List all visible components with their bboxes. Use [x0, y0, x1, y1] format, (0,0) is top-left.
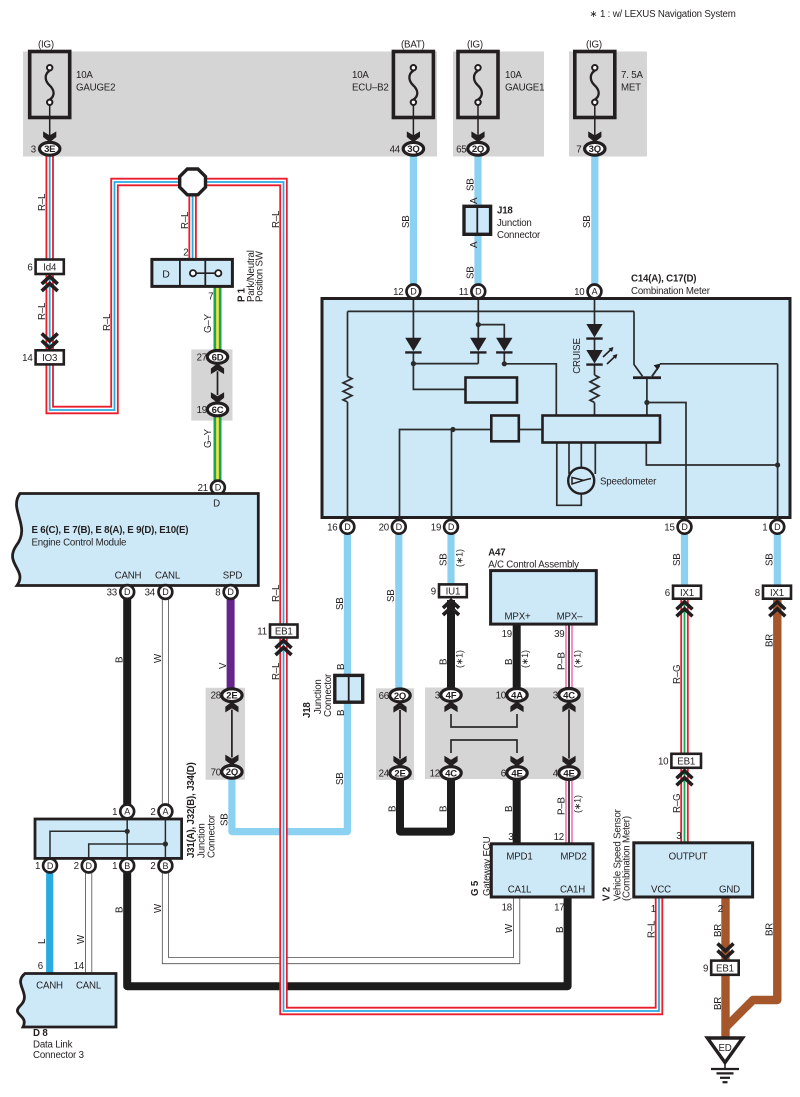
label B (4E-6 drop)	[504, 806, 515, 812]
junction link 4C-4E (right)	[562, 701, 575, 766]
svg-text:1: 1	[651, 904, 656, 915]
connector oval 2E pin 28	[211, 689, 243, 702]
svg-text:D: D	[448, 522, 455, 532]
label W (CANL riser)	[153, 653, 164, 663]
label W (J31 2B drop)	[153, 903, 164, 913]
wire B junction 2E (24) to junction 4C (12)	[400, 777, 451, 832]
wire SB fuse GAUGE1 to meter pin 11 via J18	[474, 150, 481, 287]
connector IX1 pin 6	[665, 586, 701, 599]
svg-text:J18: J18	[302, 702, 313, 718]
svg-text:3: 3	[553, 690, 558, 701]
svg-text:4C: 4C	[563, 690, 575, 701]
svg-text:SB: SB	[438, 553, 449, 566]
wire P-B A47 MPX- to junction 4C (3)	[565, 622, 573, 695]
svg-text:7. 5A: 7. 5A	[621, 70, 643, 81]
fuse block band left	[23, 52, 437, 157]
svg-text:G–Y: G–Y	[203, 428, 214, 448]
svg-text:(IG): (IG)	[586, 40, 602, 51]
svg-text:A: A	[469, 241, 480, 248]
A47 A/C Control Assembly	[488, 548, 596, 625]
svg-text:R–G: R–G	[672, 794, 683, 813]
junction dots inside meter	[411, 322, 780, 468]
label R-L (Id4 to IO3)	[37, 302, 48, 320]
svg-text:SB: SB	[219, 813, 230, 826]
svg-text:SB: SB	[465, 266, 476, 279]
label SB (pin15 riser)	[672, 553, 683, 566]
gateway pin 18 label	[502, 903, 512, 914]
svg-text:A/C Control Assembly: A/C Control Assembly	[488, 560, 579, 571]
J31 pin 2D circle	[74, 859, 96, 873]
svg-text:3Q: 3Q	[407, 144, 419, 155]
svg-text:(∗1): (∗1)	[572, 650, 582, 668]
svg-text:Position SW: Position SW	[255, 250, 266, 302]
V2 pin 2 label	[718, 904, 723, 915]
wire SB junction 2Q (70) to meter pin 16 via J18	[232, 530, 348, 832]
svg-text:4C: 4C	[445, 768, 457, 779]
meter pin 20	[379, 520, 406, 534]
chevrons above EB1 (9)	[718, 944, 734, 959]
svg-text:19: 19	[502, 629, 512, 640]
wire SB meter pin 1 to IX1 (8)	[774, 530, 781, 587]
svg-text:BR: BR	[765, 634, 776, 647]
octagon junction node	[180, 169, 206, 195]
wire R-L EB1 (11) to V2 VCC	[284, 637, 660, 1011]
label R-L (fuse to Id4)	[37, 193, 48, 211]
svg-text:Connector: Connector	[323, 673, 334, 717]
label B (J31 1B drop)	[115, 907, 126, 913]
label SB (fuse ECU-B2 riser)	[401, 215, 412, 228]
C14/C17 Combination Meter box	[322, 299, 790, 518]
fuse 10A ECU-B2	[352, 40, 433, 143]
svg-text:Connector: Connector	[207, 814, 218, 858]
wire R-G EB1 (10) to V2 OUTPUT pin 3	[680, 767, 688, 845]
junction block 4F/4A/4C/4E gray box	[425, 688, 584, 780]
A47 pin 39 label	[554, 629, 564, 640]
label R-G (EB1 to V2)	[672, 794, 683, 813]
wire B J31 pin 1B to gateway CA1H	[127, 866, 567, 986]
svg-text:G–Y: G–Y	[203, 313, 214, 333]
label R-L (left riser)	[102, 313, 113, 331]
svg-text:W: W	[76, 934, 87, 944]
fuse 10A GAUGE1	[458, 40, 544, 143]
svg-text:39: 39	[554, 629, 564, 640]
svg-text:3: 3	[508, 832, 513, 843]
connector oval 3Q pin 44	[390, 142, 424, 155]
svg-text:L: L	[37, 938, 48, 944]
svg-text:R–L: R–L	[37, 193, 48, 211]
connector oval 4C pin 3 (top)	[553, 689, 579, 702]
svg-text:7: 7	[208, 292, 213, 303]
svg-text:IU1: IU1	[446, 586, 461, 597]
meter diode 2	[470, 338, 486, 353]
label R-L (below EB1)	[271, 662, 282, 680]
svg-text:MPX+: MPX+	[505, 612, 531, 623]
svg-text:27: 27	[197, 352, 207, 363]
wire SB fuse ECU-B2 to meter pin 12	[410, 150, 417, 287]
ECM pin 33 circle	[107, 585, 135, 599]
svg-text:W: W	[153, 903, 164, 913]
label R-L (right riser to EB1)	[271, 210, 282, 228]
junction link 4F-4A	[444, 701, 523, 727]
V2 pin 1 label	[651, 904, 656, 915]
svg-text:10: 10	[496, 690, 507, 701]
svg-text:BR: BR	[713, 924, 724, 937]
svg-text:2E: 2E	[394, 768, 405, 779]
svg-text:CANL: CANL	[155, 571, 181, 582]
svg-text:EB1: EB1	[716, 963, 734, 974]
ground symbol	[711, 1063, 739, 1083]
meter diode 1	[405, 338, 421, 353]
svg-text:19: 19	[197, 405, 207, 416]
connector oval 6C pin 19	[197, 403, 228, 416]
svg-text:11: 11	[459, 287, 469, 298]
meter pin 16	[327, 520, 354, 534]
svg-text:3Q: 3Q	[589, 144, 601, 155]
svg-text:4E: 4E	[511, 768, 522, 779]
svg-text:B: B	[115, 657, 126, 663]
connector IU1 pin 9	[431, 584, 467, 597]
svg-text:6: 6	[38, 961, 43, 972]
label G-Y (P1 to 6D)	[203, 313, 214, 333]
svg-text:4F: 4F	[446, 690, 457, 701]
label CRUISE	[572, 338, 583, 374]
svg-text:MPD1: MPD1	[506, 852, 532, 863]
svg-text:∗ 1 : w/ LEXUS Navigation Syst: ∗ 1 : w/ LEXUS Navigation System	[590, 9, 736, 20]
svg-text:P–B: P–B	[556, 797, 567, 815]
junction link 2Q-2E (center)	[393, 702, 406, 767]
svg-text:20: 20	[379, 522, 390, 533]
svg-text:4: 4	[553, 769, 559, 780]
label B (2E drop)	[387, 806, 398, 812]
svg-text:B: B	[124, 861, 130, 871]
connector EB1 pin 10	[658, 754, 701, 768]
svg-text:IX1: IX1	[680, 588, 694, 599]
svg-text:CRUISE: CRUISE	[572, 338, 583, 374]
svg-text:J31(A), J32(B), J34(D): J31(A), J32(B), J34(D)	[186, 762, 197, 858]
svg-text:10A: 10A	[352, 70, 369, 81]
label V (SPD riser)	[218, 662, 229, 669]
svg-text:Engine Control Module: Engine Control Module	[32, 538, 127, 549]
svg-text:33: 33	[107, 588, 117, 599]
label B above/below J18 (left)	[336, 664, 347, 716]
svg-text:GAUGE1: GAUGE1	[505, 83, 544, 94]
svg-text:65: 65	[456, 144, 466, 155]
label BR (right drop)	[765, 923, 776, 936]
connector oval 3E pin 3	[31, 142, 60, 155]
svg-text:B: B	[336, 710, 347, 716]
connector EB1 pin 9	[703, 961, 739, 975]
svg-text:VCC: VCC	[651, 885, 671, 896]
svg-text:8: 8	[215, 588, 220, 599]
fuse block band right	[569, 52, 647, 157]
meter internal box 1	[466, 378, 518, 403]
E6-E10 Engine Control Module box	[13, 494, 259, 586]
label P-B and (*1) (4E-4 drop)	[556, 795, 582, 815]
label SB (fuse MET riser)	[582, 215, 593, 228]
svg-text:IO3: IO3	[42, 353, 57, 364]
svg-text:10A: 10A	[505, 70, 522, 81]
svg-text:3: 3	[31, 144, 36, 155]
ECM pin 8 circle	[215, 585, 237, 599]
wire L J31 pin 1D to DLC3 CANH	[46, 866, 53, 975]
svg-text:4E: 4E	[563, 768, 574, 779]
connector IO3 pin 14	[22, 350, 64, 364]
junction block 2E/2Q gray box (left)	[206, 688, 245, 780]
meter internal box 3	[543, 416, 661, 443]
gateway MPD2 pin 12 label	[554, 832, 564, 843]
svg-text:19: 19	[431, 522, 441, 533]
svg-text:OUTPUT: OUTPUT	[669, 852, 708, 863]
wire SB meter pin 15 to IX1 (6)	[681, 530, 688, 587]
svg-text:14: 14	[22, 353, 33, 364]
J31 pin 1B circle	[112, 859, 134, 873]
meter name label	[631, 274, 711, 298]
J18 junction connector (top)	[464, 206, 491, 234]
svg-text:(IG): (IG)	[467, 40, 483, 51]
chevrons below IU1	[443, 601, 459, 616]
svg-text:D 8: D 8	[33, 1028, 48, 1039]
meter transistor base bar	[633, 363, 661, 379]
svg-text:SB: SB	[765, 553, 776, 566]
connector oval 3Q pin 7	[576, 142, 605, 155]
svg-text:EB1: EB1	[677, 756, 695, 767]
svg-text:(∗1): (∗1)	[454, 549, 464, 567]
V2 name label	[601, 808, 632, 901]
svg-text:D: D	[396, 522, 403, 532]
label R-L (VCC riser)	[646, 920, 657, 938]
label B (4C riser)	[438, 806, 449, 812]
svg-text:A: A	[162, 807, 168, 817]
svg-text:D: D	[47, 861, 54, 871]
svg-text:17: 17	[554, 903, 564, 914]
svg-text:9: 9	[431, 586, 436, 597]
svg-text:R–G: R–G	[672, 665, 683, 684]
label SB / A above and below J18 (top)	[465, 178, 480, 279]
svg-text:2: 2	[150, 807, 155, 818]
label L (J31 to DLC3)	[37, 938, 48, 944]
junction link 6D-6C	[211, 363, 224, 403]
svg-text:BR: BR	[765, 923, 776, 936]
svg-text:D: D	[475, 287, 482, 297]
label B (CANH riser)	[115, 657, 126, 663]
svg-text:12: 12	[554, 832, 564, 843]
label SB (pin20 riser)	[386, 589, 397, 602]
svg-text:CANH: CANH	[115, 571, 142, 582]
svg-text:66: 66	[379, 691, 389, 702]
svg-text:SB: SB	[386, 589, 397, 602]
svg-text:Combination Meter: Combination Meter	[631, 286, 711, 297]
wire B junction 4E (6) to gateway MPD1	[513, 777, 521, 846]
svg-text:2: 2	[150, 861, 155, 872]
wire W J31 pin 2B to gateway CA1L	[165, 866, 516, 961]
label W (J31 2D to DLC3)	[76, 934, 87, 944]
chevrons above IO3	[42, 334, 58, 349]
svg-text:B: B	[387, 806, 398, 812]
svg-text:10: 10	[574, 287, 585, 298]
svg-text:SB: SB	[401, 215, 412, 228]
svg-text:Connector 3: Connector 3	[33, 1050, 84, 1061]
svg-text:W: W	[504, 923, 515, 933]
cruise indicator diode	[586, 324, 602, 339]
svg-text:14: 14	[74, 961, 85, 972]
wire P-B junction 4E (4) to gateway MPD2	[565, 777, 573, 846]
svg-text:B: B	[115, 907, 126, 913]
svg-text:G 5: G 5	[470, 880, 481, 896]
label P-B and (*1) (MPX- riser)	[556, 650, 582, 670]
label R-G (IX1 to EB1)	[672, 665, 683, 684]
svg-text:3: 3	[435, 690, 440, 701]
svg-text:EB1: EB1	[275, 627, 293, 638]
svg-text:28: 28	[211, 691, 221, 702]
label R-L (octagon to P1)	[180, 211, 191, 229]
wire B IU1 to junction 4F (3)	[447, 600, 455, 695]
wire R-L fuse GAUGE2 to Id4	[46, 150, 54, 261]
svg-text:D: D	[162, 268, 170, 280]
svg-text:D: D	[774, 522, 781, 532]
svg-text:9: 9	[703, 963, 708, 974]
label G-Y (6C to ECM 21)	[203, 428, 214, 448]
connector oval 4F pin 3	[435, 689, 461, 702]
wire SB meter pin 20 to junction 2Q (66)	[395, 530, 402, 695]
svg-text:E 6(C), E 7(B), E 8(A), E 9(D): E 6(C), E 7(B), E 8(A), E 9(D), E10(E)	[32, 525, 189, 536]
label BR (IX1 to ground)	[765, 634, 776, 647]
P1 name label	[236, 250, 265, 302]
svg-text:1: 1	[762, 522, 767, 533]
svg-text:MET: MET	[621, 83, 641, 94]
J18 (top) labels	[497, 206, 541, 242]
svg-text:(∗1): (∗1)	[572, 795, 582, 813]
svg-text:BR: BR	[713, 997, 724, 1010]
chevrons below EB1 (11)	[276, 641, 292, 656]
meter diode 3	[496, 338, 512, 353]
meter internal wiring	[343, 300, 777, 519]
svg-text:CA1H: CA1H	[560, 885, 585, 896]
svg-text:D: D	[344, 522, 351, 532]
svg-text:R–L: R–L	[180, 211, 191, 229]
J31 pin 2A circle	[150, 805, 172, 819]
svg-text:W: W	[153, 653, 164, 663]
J31/J32/J34 junction connector box	[35, 819, 182, 858]
svg-text:6: 6	[501, 769, 506, 780]
wire W J31 pin 2D to DLC3 CANL	[85, 866, 92, 975]
svg-text:70: 70	[211, 767, 222, 778]
connector EB1 pin 11	[257, 625, 297, 638]
wire R-G IX1 (6) to EB1 (10)	[680, 600, 688, 755]
svg-text:D: D	[410, 287, 417, 297]
svg-text:CANL: CANL	[76, 981, 102, 992]
wire SB meter pin 19 to IU1	[447, 530, 454, 586]
svg-text:A: A	[124, 807, 130, 817]
wire G-Y P1 pin 7 to junction 6D	[214, 285, 222, 357]
J18 (left) labels	[302, 673, 334, 718]
svg-text:6D: 6D	[212, 352, 224, 363]
V2 OUTPUT pin 3 label	[676, 831, 681, 842]
svg-text:SB: SB	[335, 597, 346, 610]
wire G-Y junction 6C to ECM pin 21	[214, 409, 222, 483]
label B and (*1) (MPX+ riser)	[504, 650, 530, 668]
cruise indicator LED	[586, 347, 617, 365]
P1 Park/Neutral Position SW	[152, 259, 233, 286]
svg-text:(∗1): (∗1)	[454, 650, 464, 668]
connector oval 2Q pin 65	[456, 142, 488, 155]
fuse 10A GAUGE2	[30, 40, 116, 143]
svg-text:GND: GND	[719, 885, 740, 896]
meter pin 12	[393, 285, 420, 299]
svg-text:B: B	[336, 664, 347, 670]
wire V ECM SPD to junction 2E (28)	[227, 595, 235, 695]
svg-text:MPD2: MPD2	[560, 852, 586, 863]
svg-text:10A: 10A	[76, 70, 93, 81]
wire B A47 MPX+ to junction 4A (10)	[513, 622, 521, 695]
chevrons below Id4	[42, 277, 58, 292]
svg-text:C14(A), C17(D): C14(A), C17(D)	[631, 274, 696, 285]
svg-text:V: V	[218, 662, 229, 669]
gateway MPD1 pin 3 label	[508, 832, 513, 843]
J31 pin 2B circle	[150, 859, 172, 873]
svg-text:8: 8	[755, 588, 760, 599]
label SB (left J18 riser lower)	[335, 772, 346, 785]
svg-text:34: 34	[145, 588, 156, 599]
junction block 2Q/2E gray box (center)	[376, 688, 414, 780]
chevrons below IX1 (8)	[769, 602, 785, 617]
svg-text:B: B	[504, 659, 515, 665]
svg-text:SB: SB	[465, 178, 476, 191]
J18 junction connector (left)	[335, 675, 363, 702]
J31 pin 1D circle	[35, 859, 57, 873]
G5 Gateway ECU box	[491, 844, 593, 897]
wire R-L Id4 to IO3	[46, 272, 54, 352]
ECM pin 34 circle	[145, 585, 173, 599]
svg-text:D: D	[681, 522, 688, 532]
ED ground triangle	[707, 1038, 742, 1063]
svg-text:B: B	[555, 927, 566, 933]
svg-text:12: 12	[393, 287, 403, 298]
wire R-L IO3 to octagon junction	[50, 182, 182, 410]
label W (CA1L drop)	[504, 923, 515, 933]
svg-text:6: 6	[27, 262, 32, 273]
svg-text:7: 7	[576, 144, 581, 155]
svg-text:2Q: 2Q	[226, 767, 238, 778]
label SB (pin16 riser)	[335, 597, 346, 610]
svg-text:V 2: V 2	[601, 887, 612, 901]
svg-text:D: D	[227, 587, 234, 597]
svg-text:1: 1	[112, 807, 117, 818]
svg-text:2: 2	[718, 904, 723, 915]
svg-text:A47: A47	[488, 548, 505, 559]
svg-text:6: 6	[665, 588, 670, 599]
svg-text:16: 16	[327, 522, 337, 533]
svg-text:D: D	[213, 499, 220, 510]
svg-text:(BAT): (BAT)	[401, 40, 425, 51]
connector oval 4E pin 4	[553, 767, 579, 780]
svg-text:D: D	[124, 587, 131, 597]
wire W ECM CANL to J31 pin 2A	[162, 595, 169, 812]
connector Id4 pin 6	[27, 260, 63, 275]
label Speedometer	[600, 477, 657, 488]
svg-text:3: 3	[676, 831, 681, 842]
svg-text:D: D	[215, 483, 222, 493]
wire BR IX1 (8) to ground junction	[725, 600, 778, 1029]
svg-text:11: 11	[257, 627, 267, 638]
svg-text:IX1: IX1	[770, 588, 784, 599]
svg-text:R–L: R–L	[271, 662, 282, 680]
junction block 6D/6C gray box	[191, 349, 232, 420]
svg-text:2: 2	[183, 247, 188, 258]
svg-text:D: D	[86, 861, 93, 871]
V2 Vehicle Speed Sensor box	[634, 843, 753, 897]
G5 name label	[470, 836, 493, 896]
svg-text:Id4: Id4	[43, 262, 57, 273]
